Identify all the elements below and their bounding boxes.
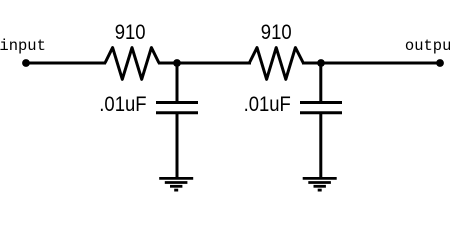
- svg-text:output: output: [405, 37, 450, 55]
- svg-text:910: 910: [115, 21, 146, 44]
- svg-text:.01uF: .01uF: [99, 93, 146, 116]
- svg-text:.01uF: .01uF: [244, 93, 291, 116]
- svg-text:input: input: [0, 37, 46, 55]
- svg-text:910: 910: [261, 21, 292, 44]
